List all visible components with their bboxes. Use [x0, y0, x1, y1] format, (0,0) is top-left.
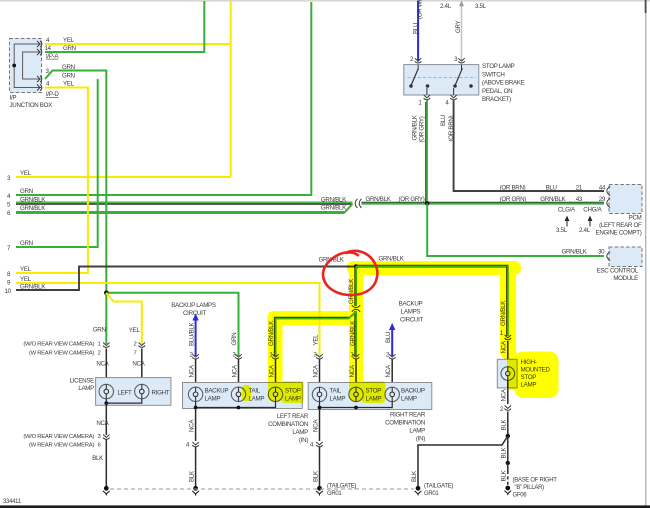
svg-text:10: 10	[5, 288, 12, 295]
svg-text:GRN/BLK: GRN/BLK	[20, 205, 46, 212]
svg-text:COMBINATION: COMBINATION	[385, 420, 425, 427]
svg-text:CHG/A: CHG/A	[583, 207, 602, 214]
license wires below connectors	[105, 349, 107, 385]
svg-text:GR01: GR01	[327, 491, 342, 497]
junction box I/P	[10, 39, 42, 93]
svg-text:CIRCUIT: CIRCUIT	[183, 310, 207, 317]
highlight main horizontal run to HMSL	[347, 261, 521, 275]
svg-text:GRN: GRN	[63, 45, 76, 52]
wire YEL junction pin4 top	[45, 43, 231, 45]
svg-text:BLK: BLK	[501, 447, 508, 459]
svg-text:GRN: GRN	[62, 73, 75, 80]
wire GRN/BLK row 10 stepping up to stop feed	[16, 267, 355, 291]
svg-text:NCA: NCA	[385, 364, 392, 377]
right combo ground labels	[327, 484, 356, 498]
right border	[645, 0, 646, 506]
svg-text:(OR WHT): (OR WHT)	[417, 0, 424, 19]
svg-text:PCM: PCM	[629, 215, 642, 222]
PCM box	[609, 185, 642, 214]
license left bulb	[99, 384, 113, 398]
svg-text:4: 4	[310, 442, 314, 449]
svg-text:3.5L: 3.5L	[556, 227, 568, 234]
left combo label	[268, 413, 309, 444]
svg-text:LAMP: LAMP	[401, 396, 417, 403]
svg-text:(OR BRN): (OR BRN)	[500, 185, 526, 192]
svg-text:3: 3	[454, 56, 458, 63]
rotated wire labels above connectors	[188, 320, 392, 346]
wire GRN/BLK (OR GRY) switch pin 1 down	[426, 101, 427, 204]
svg-text:BACKUP LAMPS: BACKUP LAMPS	[171, 302, 216, 309]
switch pin connectors	[415, 58, 465, 100]
svg-text:LEFT: LEFT	[118, 389, 132, 396]
wire YEL vertical x=230.7 from top to row 3	[230, 1, 232, 177]
svg-text:30: 30	[598, 248, 605, 255]
ground left combo	[192, 486, 199, 496]
svg-text:GRN/BLK: GRN/BLK	[321, 196, 347, 203]
svg-text:4: 4	[46, 37, 50, 44]
svg-text:2.4L: 2.4L	[440, 3, 452, 10]
svg-text:4: 4	[186, 442, 190, 449]
svg-text:21: 21	[576, 185, 583, 192]
svg-text:14: 14	[45, 45, 52, 52]
svg-text:(BASE OF RIGHT: (BASE OF RIGHT	[513, 478, 558, 484]
inline connector on stop lamp vertical	[352, 305, 360, 312]
highlight small blob near left tail lamp	[242, 385, 251, 401]
svg-text:BLU: BLU	[385, 332, 392, 343]
ESC box	[609, 247, 642, 267]
wire GRN row 7	[16, 79, 98, 247]
wire YEL row 3	[16, 176, 231, 178]
wire GRN license left lamp	[105, 293, 107, 344]
svg-text:4: 4	[7, 193, 11, 200]
svg-text:BRACKET): BRACKET)	[482, 96, 511, 103]
wire GRN junction pin3 upper to license junction	[45, 71, 106, 293]
wire GRN row 4 to top	[16, 2, 311, 195]
right combo label	[385, 412, 426, 443]
ground right combo	[316, 486, 323, 496]
svg-text:NCA: NCA	[501, 388, 508, 401]
HMSL bulb	[501, 367, 515, 381]
svg-text:BLU: BLU	[440, 115, 447, 126]
license right bulb	[135, 384, 149, 398]
svg-text:GRN/BLK: GRN/BLK	[321, 205, 347, 212]
svg-text:LAMP: LAMP	[409, 428, 425, 435]
svg-text:GRY: GRY	[455, 20, 462, 33]
svg-text:BLU/BLK: BLU/BLK	[188, 321, 195, 346]
wire BLU backup circuit right	[389, 323, 395, 356]
svg-text:LICENSE: LICENSE	[70, 378, 95, 385]
svg-text:NCA: NCA	[188, 364, 195, 377]
svg-text:BLK: BLK	[501, 470, 508, 482]
wire GRY stop lamp switch pin 3	[459, 1, 464, 62]
svg-text:2.4L: 2.4L	[579, 227, 591, 234]
highlight branch horizontal to left stop lamp	[268, 311, 363, 325]
HMSL ground spur to tailgate	[418, 436, 508, 486]
wire BLU stop lamp switch pin 2	[417, 1, 419, 62]
PCM arrows CLG/CHG	[565, 216, 593, 227]
svg-text:MODULE: MODULE	[613, 275, 638, 282]
svg-text:(OR GRY): (OR GRY)	[399, 196, 425, 203]
svg-text:PEDAL, ON: PEDAL, ON	[482, 88, 512, 95]
svg-text:STOP LAMP: STOP LAMP	[482, 63, 515, 70]
svg-text:YEL: YEL	[312, 334, 319, 346]
right border dark stub	[645, 0, 647, 13]
wire YEL row 9 to right tail lamp	[16, 283, 320, 356]
svg-text:GRN: GRN	[20, 240, 33, 247]
wire GRN/BLK down to ESC row	[427, 203, 604, 256]
svg-text:SWITCH: SWITCH	[482, 71, 505, 78]
svg-text:GRN/BLK: GRN/BLK	[562, 248, 588, 255]
highlight left stop lamp text	[281, 381, 304, 403]
left combo box	[183, 383, 303, 409]
junction dot row5/switch	[425, 201, 430, 206]
svg-text:GF06: GF06	[513, 492, 528, 498]
svg-text:NCA: NCA	[96, 420, 109, 427]
svg-text:44: 44	[599, 185, 606, 192]
ESC labels	[562, 248, 639, 282]
right combo ground bus	[320, 402, 393, 408]
svg-text:BLK: BLK	[501, 419, 508, 431]
wire GRN/BLK row 5	[16, 202, 353, 204]
svg-text:LEFT REAR: LEFT REAR	[277, 413, 309, 420]
PCM labels	[321, 185, 642, 237]
svg-text:GRN/BLK: GRN/BLK	[540, 196, 566, 203]
svg-text:BACKUP: BACKUP	[205, 388, 229, 395]
right combo texts	[330, 388, 425, 403]
highlight left stop lamp column	[268, 318, 283, 402]
svg-text:(OR BRN): (OR BRN)	[448, 115, 455, 141]
svg-text:YEL: YEL	[63, 37, 75, 44]
rotated wire labels below switch	[411, 114, 455, 142]
ground license	[103, 486, 110, 496]
svg-text:YEL: YEL	[63, 81, 75, 88]
svg-text:LAMPS: LAMPS	[401, 309, 421, 316]
svg-text:NCA: NCA	[188, 419, 195, 432]
ESC pin arc	[607, 251, 610, 260]
svg-text:2: 2	[410, 56, 414, 63]
bottom border	[0, 505, 650, 508]
wire GRN/BLK merged row to PCM pin 29	[362, 202, 605, 203]
svg-text:(LEFT REAR OF: (LEFT REAR OF	[599, 222, 642, 229]
svg-text:TAIL: TAIL	[330, 388, 342, 395]
license ground wire	[105, 403, 107, 435]
highlight right stop lamp column	[349, 330, 363, 402]
rotated wire labels top	[412, 0, 462, 34]
svg-text:3: 3	[98, 434, 102, 440]
svg-text:43: 43	[576, 196, 583, 203]
highlight vertical run down to HMSL	[500, 262, 516, 359]
svg-text:NCA: NCA	[312, 364, 319, 377]
svg-text:GRN: GRN	[231, 333, 238, 346]
svg-text:NCA: NCA	[231, 364, 238, 377]
left combo texts	[205, 388, 301, 403]
svg-text:BACKUP: BACKUP	[401, 388, 425, 395]
stop lamp switch box	[404, 65, 479, 95]
svg-text:JUNCTION BOX: JUNCTION BOX	[10, 102, 53, 109]
HMSL pin labels	[500, 300, 508, 354]
svg-text:(W/O REAR VIEW CAMERA): (W/O REAR VIEW CAMERA)	[23, 342, 94, 348]
svg-text:BACKUP: BACKUP	[399, 301, 423, 308]
switch labels	[410, 3, 525, 107]
svg-text:4: 4	[46, 81, 50, 88]
svg-text:GRN: GRN	[20, 188, 33, 195]
inline connector rows 5/6	[355, 199, 361, 208]
red marker circle	[323, 251, 377, 295]
HMSL box	[497, 359, 517, 388]
svg-text:2: 2	[134, 342, 137, 348]
svg-text:(ABOVE BRAKE: (ABOVE BRAKE	[482, 80, 525, 87]
svg-text:(IN): (IN)	[416, 436, 425, 443]
left combo bulbs	[188, 387, 282, 401]
right combo ground wire	[319, 410, 321, 442]
svg-text:RIGHT REAR: RIGHT REAR	[390, 412, 426, 419]
connectors	[192, 354, 199, 359]
svg-text:1: 1	[98, 342, 101, 348]
svg-text:29: 29	[599, 196, 606, 203]
svg-text:GRN: GRN	[93, 327, 106, 334]
highlight right stop lamp text	[362, 381, 386, 403]
svg-text:(W REAR VIEW CAMERA): (W REAR VIEW CAMERA)	[29, 351, 94, 357]
junction box labels	[10, 37, 76, 109]
highlight vertical below junction dot	[349, 263, 363, 343]
svg-text:NCA: NCA	[96, 361, 109, 368]
svg-text:6: 6	[98, 442, 102, 448]
svg-text:ENGINE COMPT): ENGINE COMPT)	[596, 230, 642, 237]
svg-text:YEL: YEL	[20, 266, 32, 273]
wire GRN/BLK vertical to right stop lamp pin	[355, 311, 356, 356]
svg-text:7: 7	[134, 351, 137, 357]
svg-text:GRN/BLK: GRN/BLK	[366, 196, 392, 203]
ground tailgate middle	[415, 486, 422, 496]
wire GRN junction I/P-A	[45, 1, 204, 52]
svg-text:"B" PILLAR): "B" PILLAR)	[515, 485, 545, 491]
svg-text:I/P: I/P	[10, 95, 17, 102]
svg-text:334411: 334411	[3, 499, 22, 505]
svg-text:LAMP: LAMP	[205, 396, 221, 403]
svg-text:NCA: NCA	[312, 419, 319, 432]
svg-text:2: 2	[500, 406, 504, 413]
svg-text:LAMP: LAMP	[78, 385, 94, 392]
svg-text:GRN/BLK: GRN/BLK	[411, 114, 418, 140]
black wire stubs into boxes	[196, 359, 393, 387]
svg-text:(IN): (IN)	[299, 437, 308, 444]
wire YEL license right lamp	[106, 293, 142, 344]
svg-text:BLU: BLU	[412, 23, 419, 34]
svg-text:(OR GRN): (OR GRN)	[500, 196, 527, 203]
svg-text:6: 6	[7, 210, 11, 217]
wire GRN/BLK vertical below dot to connector	[355, 267, 356, 307]
HMSL ground chain	[507, 380, 509, 404]
svg-text:7: 7	[7, 245, 11, 252]
svg-text:(OR GRY): (OR GRY)	[418, 116, 425, 142]
svg-text:BLK: BLK	[312, 470, 319, 482]
license lamp box	[96, 378, 171, 406]
top border	[0, 0, 650, 2]
wire GRN/BLK row 6	[16, 204, 353, 213]
svg-text:3.5L: 3.5L	[475, 3, 487, 10]
svg-text:YEL: YEL	[20, 170, 32, 177]
svg-text:BLK: BLK	[92, 455, 104, 462]
svg-text:YEL: YEL	[20, 276, 32, 283]
license pin connectors	[103, 343, 110, 348]
svg-text:I/P-D: I/P-D	[46, 91, 59, 98]
license ground bus	[106, 399, 142, 403]
HMSL text	[521, 359, 551, 389]
svg-text:8: 8	[7, 271, 11, 278]
right combo bulbs	[312, 387, 399, 401]
svg-text:5: 5	[7, 202, 11, 209]
svg-text:NCA: NCA	[132, 361, 145, 368]
svg-text:BLU: BLU	[546, 185, 557, 192]
PCM pin arcs	[607, 186, 610, 195]
license lamp texts	[118, 389, 170, 396]
right combo box	[308, 383, 432, 410]
pin numbers	[189, 352, 390, 359]
junction dot stop feed	[354, 264, 359, 269]
svg-text:3: 3	[7, 175, 11, 182]
svg-text:YEL: YEL	[129, 327, 141, 334]
junction box pin connectors	[37, 41, 42, 91]
svg-text:LAMP: LAMP	[330, 396, 346, 403]
svg-text:1: 1	[418, 100, 422, 107]
svg-text:2: 2	[98, 351, 101, 357]
svg-text:ESC CONTROL: ESC CONTROL	[597, 268, 639, 275]
svg-text:BLK: BLK	[188, 470, 195, 482]
wire GRN/BLK stop feed to HMSL column	[356, 265, 509, 336]
junction dot license	[104, 290, 109, 295]
svg-text:RIGHT: RIGHT	[152, 389, 170, 396]
svg-text:CLG/A: CLG/A	[558, 207, 576, 214]
wire BLU backup circuit left	[192, 314, 198, 357]
svg-text:(W/O REAR VIEW CAMERA): (W/O REAR VIEW CAMERA)	[23, 434, 94, 440]
svg-text:COMBINATION: COMBINATION	[268, 421, 308, 428]
svg-text:(W REAR VIEW CAMERA): (W REAR VIEW CAMERA)	[29, 442, 94, 448]
svg-text:CIRCUIT: CIRCUIT	[400, 317, 424, 324]
highlight HMSL lamp + text blob	[515, 352, 559, 399]
svg-text:BLK: BLK	[411, 470, 418, 482]
wire GRN/BLK branch to left stop lamp pin	[274, 312, 356, 356]
left combo ground wire	[195, 408, 197, 442]
NCA rotated labels	[188, 364, 392, 377]
ground GF06	[504, 486, 511, 496]
left combo ground bus	[196, 402, 276, 408]
svg-text:GR01: GR01	[424, 491, 439, 497]
wire YEL junction I/P-D down to row 8	[16, 88, 88, 274]
svg-text:I/P-A: I/P-A	[46, 53, 59, 60]
svg-text:(TAILGATE): (TAILGATE)	[424, 484, 453, 490]
wire GRN license junction to left tail lamp	[106, 293, 238, 356]
wire BLU (OR BRN) switch pin 4 to PCM	[454, 101, 604, 192]
license lamp pin labels	[23, 342, 136, 357]
svg-text:4: 4	[445, 100, 449, 107]
svg-text:9: 9	[7, 280, 11, 287]
svg-text:LAMP: LAMP	[292, 429, 308, 436]
